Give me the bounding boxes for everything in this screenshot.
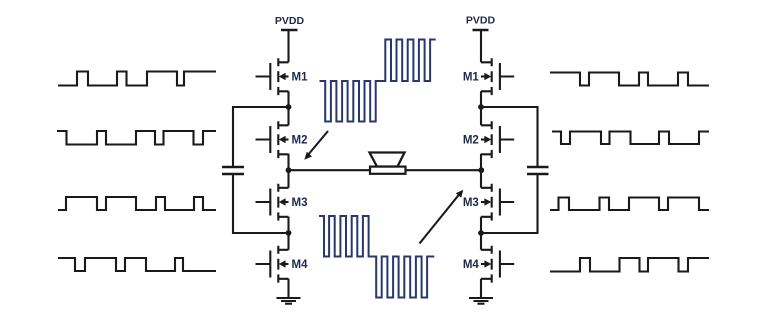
svg-text:M3: M3 bbox=[292, 197, 308, 209]
svg-text:M1: M1 bbox=[292, 72, 309, 84]
svg-text:M4: M4 bbox=[463, 259, 480, 271]
svg-text:PVDD: PVDD bbox=[466, 15, 496, 27]
svg-text:M2: M2 bbox=[463, 135, 479, 147]
svg-text:PVDD: PVDD bbox=[275, 15, 305, 27]
svg-text:M3: M3 bbox=[463, 197, 479, 209]
svg-text:M1: M1 bbox=[463, 72, 480, 84]
svg-text:M2: M2 bbox=[292, 135, 308, 147]
svg-text:M4: M4 bbox=[292, 259, 309, 271]
